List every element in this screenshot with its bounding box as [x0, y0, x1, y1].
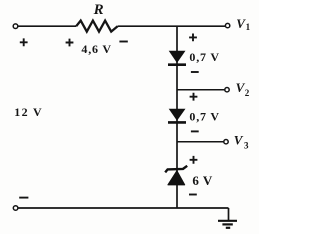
svg-text:3: 3 — [244, 140, 249, 150]
svg-text:6 V: 6 V — [192, 173, 213, 188]
svg-text:2: 2 — [245, 88, 250, 98]
svg-text:12 V: 12 V — [14, 105, 43, 119]
svg-text:0,7 V: 0,7 V — [189, 109, 219, 123]
svg-text:1: 1 — [246, 22, 251, 32]
svg-text:V: V — [234, 132, 244, 147]
svg-text:0,7 V: 0,7 V — [189, 50, 219, 64]
svg-text:R: R — [93, 2, 104, 18]
svg-text:4,6 V: 4,6 V — [81, 42, 111, 56]
